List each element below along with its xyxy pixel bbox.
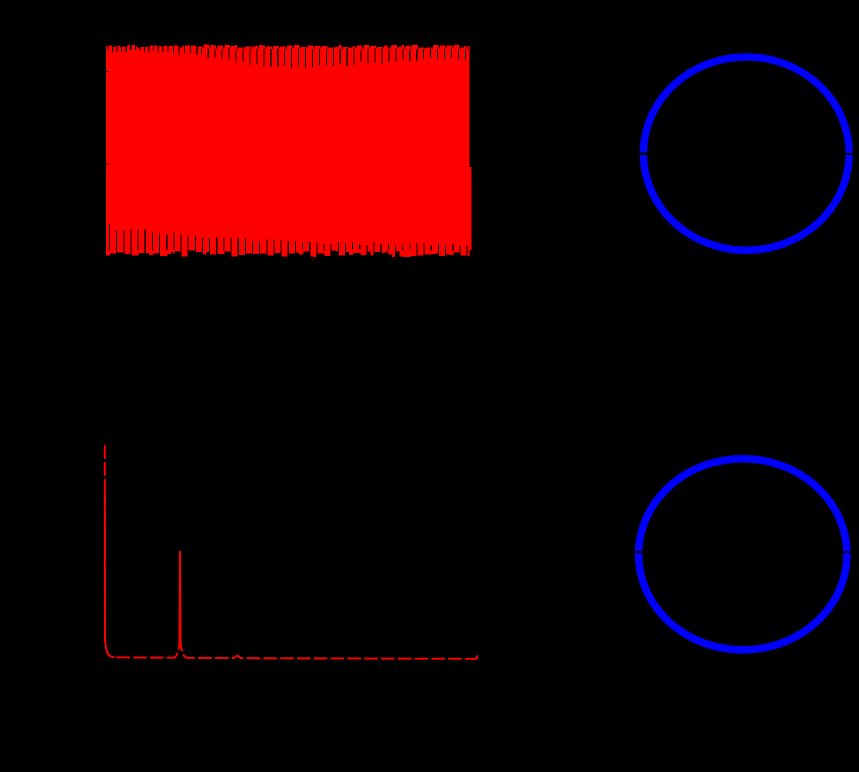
ellipse U1 right gap	[843, 153, 854, 155]
limit cycle ellipse U2 (bottom-right panel)	[639, 459, 847, 650]
spectrum DC spike lower part (solid overlay)	[105, 484, 115, 657]
power spectrum dashed red curve (bottom-left panel)	[105, 445, 478, 659]
axis tick left lower	[106, 163, 109, 164]
spectrum end uptick (solid overlay)	[476, 655, 478, 658]
ellipse U1 left gap	[639, 152, 650, 155]
limit cycle ellipse U1 (top-right panel)	[643, 57, 849, 250]
waveform aliasing slits (black)	[107, 40, 467, 259]
ellipse U2 left gap	[636, 551, 647, 553]
ellipse U2 right gap	[841, 551, 852, 553]
spectrum fundamental peak (solid overlay)	[179, 551, 182, 642]
waveform right-edge amplitude step	[469, 167, 471, 250]
waveform u(t) red body (top-left panel)	[106, 45, 470, 257]
axis tick left upper	[106, 71, 109, 72]
